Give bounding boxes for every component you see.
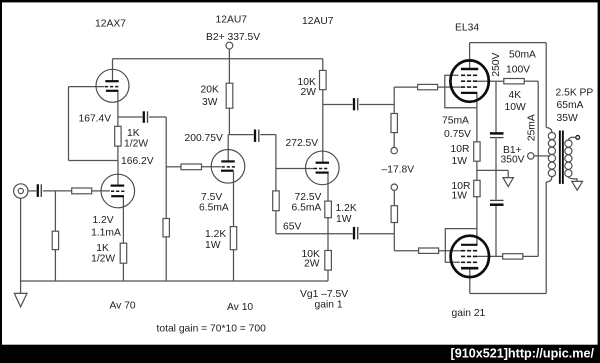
capacitor coupling to EL34 V5 [353,227,355,240]
wire output ground rail [477,169,508,171]
wire 20K bottom to 200.75V node [228,108,230,134]
wire cathode node to coupling cap [118,116,142,118]
wire input jack sleeve down [20,198,22,281]
tube EL34 V5 [451,236,489,277]
svg-text:Av 70: Av 70 [110,300,136,311]
wire g3-cathode box V4 [445,75,477,107]
wire bias resistor2 upper lead [393,191,395,206]
wire plate lead V2a 12AU7 [227,135,229,162]
wire g3-cathode box V5 [445,229,477,263]
core [559,131,561,184]
wire EL34 V4 plate top [470,42,547,44]
tube 12AU7 V2a [211,150,245,184]
wire 10R2 to cathode V5 [476,197,478,245]
resistor 20K 3W [226,83,233,108]
capacitor coupling stage2-3 [254,130,256,142]
svg-text:10W: 10W [505,102,526,113]
tube 12AX7 lower half V1a [101,174,135,208]
wire screen g2 V5 [476,255,503,257]
transformer T1 output 2.5K PP [546,128,577,184]
svg-text:12AU7: 12AU7 [302,16,334,27]
resistor bias feed V4 [391,114,397,133]
resistor input grid leak [52,231,58,249]
svg-text:65mA: 65mA [557,100,584,111]
svg-text:2.5K PP: 2.5K PP [556,87,594,98]
svg-text:1.2K: 1.2K [336,203,357,214]
wire screen bypass cap2 bottom lead [495,206,497,257]
svg-text:1/2W: 1/2W [124,138,148,149]
wire plate V5 to primary bottom [545,182,547,294]
svg-text:272.5V: 272.5V [286,138,319,149]
resistor grid leak V2b [273,191,280,211]
wire cathode lead V1a [122,197,124,243]
svg-text:167.4V: 167.4V [79,113,112,124]
wire cathode V1b to 1K [117,92,119,126]
svg-text:12AU7: 12AU7 [216,14,248,25]
capacitor coupling stage1-2 [143,111,145,123]
capacitor input coupling [37,184,39,197]
wire B+ rail to 10K 2W [322,59,324,71]
svg-text:1/2W: 1/2W [91,254,115,265]
resistor grid stopper V4 [418,84,438,89]
resistor 1K 1/2W SRPP [115,126,121,146]
resistor 4K 10W screen [504,79,524,84]
wire 10K 2W to plate V2b (272.5V node) [322,90,324,163]
tube 12AU7 V2b [306,151,340,185]
resistor 1.2K 1W cathode V2b [325,201,332,218]
svg-text:1.1mA: 1.1mA [91,228,121,239]
resistor 1K 1/2W cathode V1a [120,243,127,263]
wire plate lead V5 down [469,269,471,293]
resistor bias feed V5 [391,206,397,223]
wire 272.5V node to coupling cap EL34 [323,104,353,106]
svg-text:total gain = 70*10 = 700: total gain = 70*10 = 700 [157,323,267,334]
svg-text:1W: 1W [452,156,468,167]
wire screen bypass cap2 top lead [495,170,497,199]
svg-text:6.5mA: 6.5mA [199,202,229,213]
svg-text:10R: 10R [451,144,470,155]
svg-text:4K: 4K [509,90,522,101]
wire cathode lead V4 [476,94,478,108]
svg-text:350V: 350V [501,154,525,165]
svg-text:20K: 20K [201,84,219,95]
svg-text:Av 10: Av 10 [227,302,253,313]
wire grid V1b upper [69,86,105,88]
wire 166.2V node horizontal [69,160,119,162]
wire 10K 2W to ground bus [327,270,329,281]
wire 1K bottom to 166.2V node [117,146,119,160]
svg-text:12AX7: 12AX7 [95,18,126,29]
capacitor screen bypass V5 [490,199,504,201]
wire stopper to grid V5 [439,250,462,252]
resistor grid stopper V2a [181,164,202,170]
primary winding [546,128,552,133]
wire stage2 grid leak vertical lower [165,237,167,281]
wire stopper to grid V2a [202,166,222,168]
wire screen g2 V4 to 4K [476,80,504,82]
wire plate V5 bottom horizontal [470,293,546,295]
wire cathode lead V2a [233,172,235,227]
wire 10R to ground rail and 10R2 [476,161,478,180]
wire 1K cathode V1a to bus [122,263,124,281]
svg-text:3W: 3W [202,97,218,108]
wire screen bypass cap1 top lead [495,81,497,132]
wire plate lead V4 [469,43,471,68]
resistor 10R 1W lower [474,180,480,196]
wire cathode lead V2b [327,173,329,201]
svg-text:7.5V: 7.5V [201,192,222,203]
wire grid node to stopper V2a [166,166,181,168]
wire bias resistor2 lower lead [393,223,395,234]
wire stopper to grid V1a [92,190,110,192]
svg-text:65V: 65V [283,222,301,233]
svg-text:gain 1: gain 1 [315,300,343,311]
svg-text:2W: 2W [304,258,320,269]
capacitor screen bypass V4 [490,132,504,135]
tube 12AX7 upper half V1b [96,69,129,102]
wire cap to grid-leak junction [260,134,276,136]
resistor 10K 2W plate V2b [320,70,327,89]
wire input grid leak upper [54,191,56,231]
wire grid node V5 vertical [393,234,395,251]
svg-text:1.2V: 1.2V [92,215,113,226]
wire grid V2b 12AU7 [276,168,314,170]
wire primary top lead [545,43,547,128]
svg-text:6.5mA: 6.5mA [292,202,322,213]
svg-text:75mA: 75mA [442,116,469,127]
svg-text:B2+ 337.5V: B2+ 337.5V [206,32,260,43]
svg-text:35W: 35W [557,113,578,124]
wire 1.2K to 10K through 65V rail [327,218,329,251]
resistor grid leak V2a [163,219,169,237]
svg-text:166.2V: 166.2V [121,156,154,167]
secondary winding [568,137,576,140]
node B1+ terminal [528,153,534,159]
svg-text:1W: 1W [452,191,468,202]
resistor 1.2K 1W cathode V2a [230,227,236,250]
wire bias resistor to test point [393,133,395,148]
capacitor coupling to EL34 V4 [353,98,355,110]
wire ground bus [20,280,328,282]
wire jack to input cap [28,190,36,192]
wire grid leak resistor to 65V rail [275,211,277,234]
wire output ground stem [507,170,509,177]
wire plate lead V1a [117,161,119,185]
wire B1+ tap to primary [534,155,550,157]
wire cap to stage2 grid leak [149,116,166,118]
node secondary output terminal [576,136,580,140]
wire 200.75V node to coupling cap [228,134,253,136]
wire B+ rail top [113,58,323,60]
svg-text:25mA: 25mA [527,114,538,141]
svg-text:72.5V: 72.5V [295,192,322,203]
wire stopper to EL34 V4 grid [438,86,462,88]
wire grid node V5 to stopper [394,250,418,252]
svg-text:–17.8V: –17.8V [382,164,415,175]
svg-text:2W: 2W [301,87,317,98]
ground secondary [572,178,583,190]
wire 1.2K V2a to ground bus [233,250,235,281]
wire cap to EL34 grid node [359,104,394,106]
svg-text:50mA: 50mA [509,49,536,60]
svg-text:250V: 250V [491,52,502,76]
svg-text:gain 21: gain 21 [452,308,486,319]
wire 65V rail right to grid node [359,233,394,235]
wire 4K to screen feed [524,80,538,82]
ground main [14,293,27,306]
svg-text:200.75V: 200.75V [185,133,223,144]
svg-text:Vg1 –7.5V: Vg1 –7.5V [300,289,348,300]
wire B2+ stem [228,49,230,83]
resistor screen V5 [503,254,523,259]
wire screen feed vertical [537,81,539,256]
wire SRPP grid feedback vertical [68,87,70,161]
node B2+ terminal [226,42,233,49]
node -17.8V test point upper [391,147,397,153]
svg-text:1K: 1K [96,243,109,254]
wire EL34 V4 grid node to stopper [394,86,417,88]
tube EL34 V4 [450,60,488,101]
svg-text:0.75V: 0.75V [444,129,471,140]
svg-text:1W: 1W [205,240,221,251]
wire input cap to grid stopper [43,190,72,192]
wire cathode to 10R [476,108,478,142]
resistor 10K 2W tail [325,251,332,271]
svg-text:100V: 100V [506,64,530,75]
ground output stage [503,178,513,187]
svg-text:1W: 1W [336,214,352,225]
resistor 10R 1W upper [474,142,480,161]
wire 65V rail left [276,233,353,235]
resistor grid stopper V1a [72,188,92,194]
input jack [14,184,28,198]
wire stage2 grid leak vertical upper [165,117,167,219]
resistor grid stopper V5 [419,248,439,253]
wire grid leak vertical V2b [275,135,277,191]
svg-text:1.2K: 1.2K [205,229,226,240]
wire ground stem [20,281,22,293]
node -17.8V test point lower [391,184,397,190]
svg-text:[910x521]http://upic.me/: [910x521]http://upic.me/ [451,347,595,361]
wire screen bypass cap1 bottom lead [495,139,497,171]
wire screen resistor V5 to feed [523,255,538,257]
wire plate lead V1b upper 12AX7 [112,59,114,81]
svg-text:EL34: EL34 [455,22,479,33]
wire EL34 V4 grid node vertical [393,87,395,113]
wire input grid leak lower [54,250,56,281]
